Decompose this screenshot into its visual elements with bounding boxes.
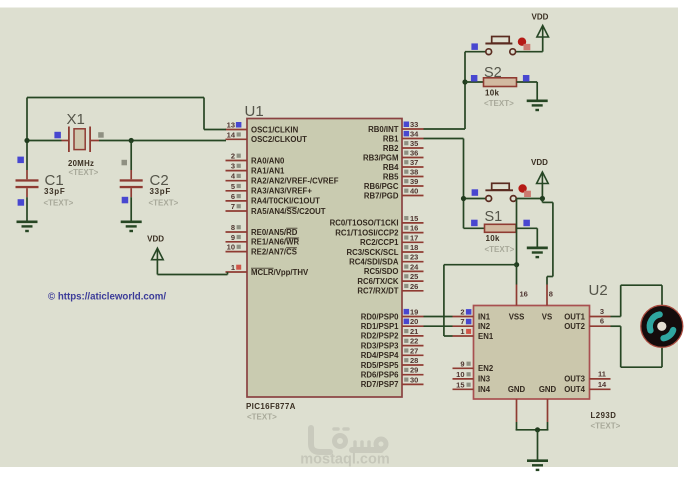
svg-text:33pF: 33pF <box>150 187 171 196</box>
svg-text:OUT3: OUT3 <box>564 375 585 384</box>
svg-text:2: 2 <box>231 152 235 161</box>
svg-text:16: 16 <box>410 224 418 233</box>
svg-text:36: 36 <box>410 149 418 158</box>
svg-text:15: 15 <box>410 214 418 223</box>
svg-text:RB5: RB5 <box>383 172 399 181</box>
svg-text:© https://aticleworld.com/: © https://aticleworld.com/ <box>48 292 166 303</box>
svg-text:1: 1 <box>231 263 235 272</box>
svg-text:RC2/CCP1: RC2/CCP1 <box>360 238 399 247</box>
svg-text:5: 5 <box>231 182 235 191</box>
svg-text:19: 19 <box>410 308 418 317</box>
svg-text:VDD: VDD <box>147 235 164 244</box>
svg-text:RB7/PGD: RB7/PGD <box>364 191 399 200</box>
svg-text:EN1: EN1 <box>478 332 494 341</box>
svg-text:29: 29 <box>410 366 418 375</box>
svg-text:6: 6 <box>231 192 235 201</box>
svg-text:RB4: RB4 <box>383 163 399 172</box>
svg-text:<TEXT>: <TEXT> <box>485 245 515 254</box>
svg-text:U1: U1 <box>245 103 264 120</box>
svg-text:14: 14 <box>227 130 236 139</box>
svg-text:13: 13 <box>227 121 235 130</box>
svg-text:10k: 10k <box>486 234 500 243</box>
svg-text:VS: VS <box>542 313 552 322</box>
svg-text:34: 34 <box>410 130 419 139</box>
svg-text:S2: S2 <box>484 65 502 81</box>
svg-text:RD7/PSP7: RD7/PSP7 <box>361 380 399 389</box>
svg-text:RC1/T1OSI/CCP2: RC1/T1OSI/CCP2 <box>335 228 399 237</box>
svg-text:17: 17 <box>410 233 418 242</box>
svg-text:X1: X1 <box>67 111 85 128</box>
svg-text:RD4/PSP4: RD4/PSP4 <box>361 351 399 360</box>
svg-text:RD5/PSP5: RD5/PSP5 <box>361 361 399 370</box>
svg-text:OUT2: OUT2 <box>564 322 585 331</box>
svg-text:8: 8 <box>549 290 553 299</box>
svg-text:OUT1: OUT1 <box>564 312 585 321</box>
svg-text:VSS: VSS <box>509 313 525 322</box>
svg-text:27: 27 <box>410 346 418 355</box>
svg-text:IN3: IN3 <box>478 375 491 384</box>
svg-text:10: 10 <box>456 370 464 379</box>
svg-text:<TEXT>: <TEXT> <box>591 422 621 431</box>
svg-text:MCLR/Vpp/THV: MCLR/Vpp/THV <box>251 268 309 277</box>
svg-text:<TEXT>: <TEXT> <box>44 199 74 208</box>
svg-text:RC6/TX/CK: RC6/TX/CK <box>357 277 399 286</box>
svg-text:RB3/PGM: RB3/PGM <box>363 153 399 162</box>
svg-text:RB6/PGC: RB6/PGC <box>364 182 399 191</box>
svg-text:S1: S1 <box>485 209 503 225</box>
svg-text:mostaql.com: mostaql.com <box>300 452 389 468</box>
svg-text:RD6/PSP6: RD6/PSP6 <box>361 371 399 380</box>
svg-text:RB0/INT: RB0/INT <box>368 125 399 134</box>
svg-text:U2: U2 <box>589 282 608 299</box>
svg-text:8: 8 <box>231 223 235 232</box>
svg-text:RD1/PSP1: RD1/PSP1 <box>361 322 399 331</box>
svg-text:RD2/PSP2: RD2/PSP2 <box>361 332 399 341</box>
svg-text:16: 16 <box>520 290 528 299</box>
svg-text:33: 33 <box>410 120 418 129</box>
svg-text:20MHz: 20MHz <box>68 159 94 168</box>
svg-text:RC5/SDO: RC5/SDO <box>364 267 399 276</box>
svg-text:RC7/RX/DT: RC7/RX/DT <box>357 287 398 296</box>
svg-text:<TEXT>: <TEXT> <box>69 168 99 177</box>
svg-text:23: 23 <box>410 253 418 262</box>
svg-text:26: 26 <box>410 282 418 291</box>
svg-text:RD3/PSP3: RD3/PSP3 <box>361 341 399 350</box>
svg-text:RA0/AN0: RA0/AN0 <box>251 156 285 165</box>
svg-text:9: 9 <box>460 359 464 368</box>
svg-text:RA4/T0CKI/C1OUT: RA4/T0CKI/C1OUT <box>251 197 320 206</box>
svg-text:3: 3 <box>600 307 604 316</box>
svg-text:10: 10 <box>227 243 235 252</box>
svg-text:6: 6 <box>600 317 604 326</box>
svg-text:RA3/AN3/VREF+: RA3/AN3/VREF+ <box>251 187 312 196</box>
svg-text:24: 24 <box>410 262 419 271</box>
svg-text:39: 39 <box>410 177 418 186</box>
svg-text:35: 35 <box>410 139 418 148</box>
svg-text:IN4: IN4 <box>478 385 491 394</box>
svg-text:PIC16F877A: PIC16F877A <box>246 402 296 411</box>
svg-text:OUT4: OUT4 <box>564 385 585 394</box>
svg-text:RE2/AN7/CS: RE2/AN7/CS <box>251 247 297 256</box>
svg-text:OSC2/CLKOUT: OSC2/CLKOUT <box>251 135 307 144</box>
svg-text:IN1: IN1 <box>478 312 491 321</box>
svg-text:RA1/AN1: RA1/AN1 <box>251 166 285 175</box>
svg-text:GND: GND <box>539 385 557 394</box>
svg-text:GND: GND <box>508 385 526 394</box>
svg-text:15: 15 <box>456 380 464 389</box>
svg-text:7: 7 <box>460 317 464 326</box>
svg-text:7: 7 <box>231 202 235 211</box>
svg-text:1: 1 <box>460 327 464 336</box>
svg-text:10k: 10k <box>485 88 499 97</box>
svg-text:14: 14 <box>598 380 607 389</box>
svg-text:20: 20 <box>410 317 418 326</box>
svg-text:28: 28 <box>410 356 418 365</box>
svg-text:40: 40 <box>410 187 418 196</box>
svg-text:RE0/AN5/RD: RE0/AN5/RD <box>251 228 298 237</box>
svg-text:IN2: IN2 <box>478 322 491 331</box>
svg-text:RA2/AN2/VREF-/CVREF: RA2/AN2/VREF-/CVREF <box>251 177 339 186</box>
svg-text:37: 37 <box>410 158 418 167</box>
svg-text:RB2: RB2 <box>383 144 399 153</box>
svg-text:RC4/SDI/SDA: RC4/SDI/SDA <box>349 258 399 267</box>
svg-text:3: 3 <box>231 162 235 171</box>
svg-text:RD0/PSP0: RD0/PSP0 <box>361 312 399 321</box>
svg-text:OSC1/CLKIN: OSC1/CLKIN <box>251 125 299 134</box>
svg-text:RA5/AN4/SS/C2OUT: RA5/AN4/SS/C2OUT <box>251 207 326 216</box>
svg-text:11: 11 <box>598 369 606 378</box>
svg-text:<TEXT>: <TEXT> <box>484 99 514 108</box>
svg-text:<TEXT>: <TEXT> <box>247 413 277 422</box>
svg-text:21: 21 <box>410 327 418 336</box>
svg-text:33pF: 33pF <box>44 187 65 196</box>
svg-text:L293D: L293D <box>591 411 617 420</box>
svg-text:25: 25 <box>410 272 418 281</box>
svg-text:VDD: VDD <box>531 158 548 167</box>
svg-text:22: 22 <box>410 337 418 346</box>
svg-text:RC3/SCK/SCL: RC3/SCK/SCL <box>347 248 399 257</box>
svg-text:38: 38 <box>410 168 418 177</box>
svg-text:<TEXT>: <TEXT> <box>149 199 179 208</box>
svg-text:VDD: VDD <box>532 12 549 21</box>
svg-text:RC0/T1OSO/T1CKI: RC0/T1OSO/T1CKI <box>330 219 399 228</box>
svg-text:18: 18 <box>410 243 418 252</box>
svg-text:2: 2 <box>460 308 464 317</box>
svg-text:RB1: RB1 <box>383 134 399 143</box>
svg-text:EN2: EN2 <box>478 364 494 373</box>
svg-text:RE1/AN6/WR: RE1/AN6/WR <box>251 238 299 247</box>
svg-text:9: 9 <box>231 233 235 242</box>
svg-text:30: 30 <box>410 375 418 384</box>
